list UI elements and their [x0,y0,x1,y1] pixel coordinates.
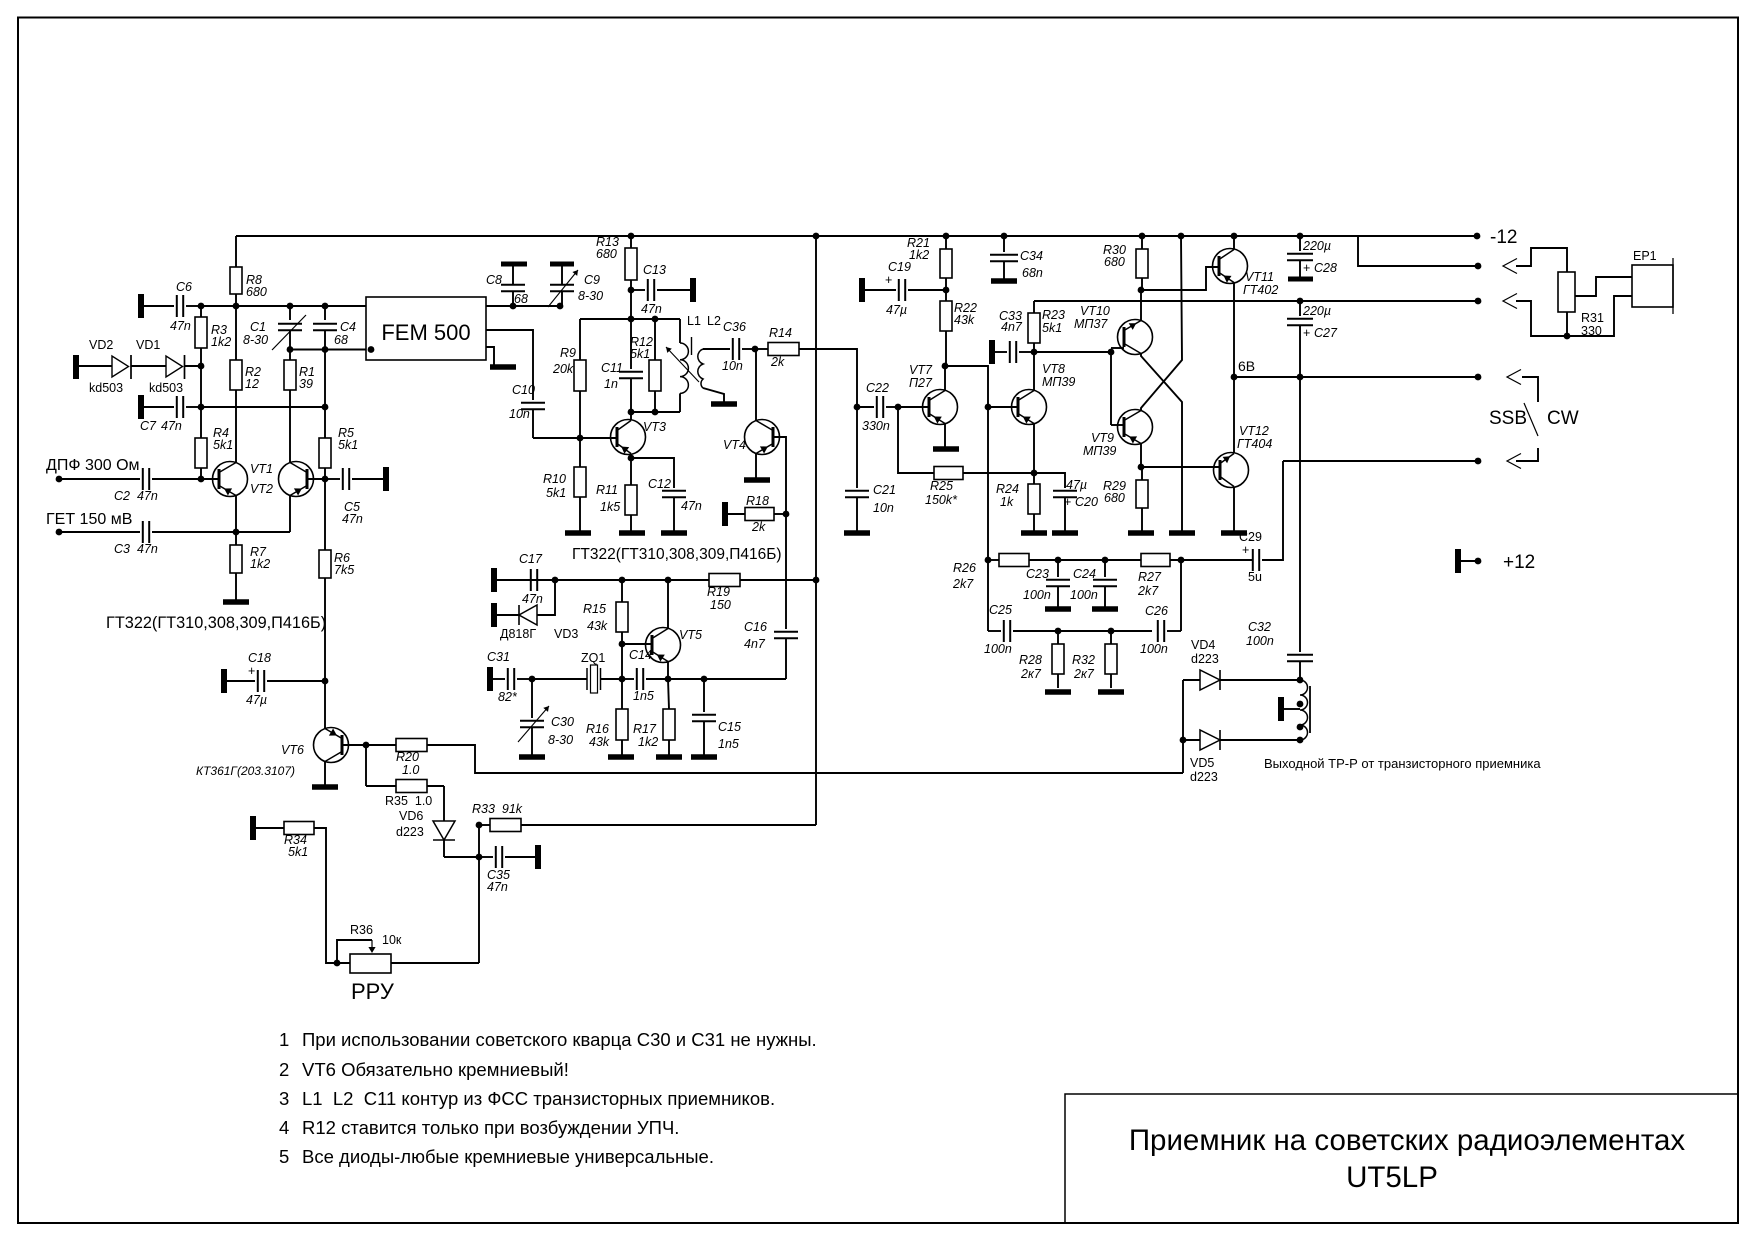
wire R34 to R36 [314,828,350,963]
capacitor C5 47n [325,478,340,480]
capacitor C23 100n [1057,560,1059,577]
arrow contact row4 [1507,370,1521,385]
transistor VT8 MP39 [1012,390,1047,425]
node VT8 collector C33 R23 [1031,349,1038,356]
node R32 top [1108,628,1115,635]
diode VD4 d223 [1183,679,1200,681]
capacitor C17 47n [491,568,497,592]
ground under C24 [1092,606,1118,612]
wire cross VT10 collector [1141,354,1182,532]
diode VD6 d223 [427,785,444,787]
svg-text:C31: C31 [487,650,510,664]
node R26 left [985,557,992,564]
svg-text:R35 1.0: R35 1.0 [385,794,432,808]
node VT3 emitter [628,455,635,462]
wire IF row y580 [494,579,709,581]
resistor R11 1k5 [630,458,632,485]
svg-text:R28: R28 [1019,653,1042,667]
svg-text:C24: C24 [1073,567,1096,581]
capacitor C9 8-30 variable [550,262,574,267]
svg-text:C11: C11 [601,361,623,375]
terminal row2 [1475,263,1482,270]
ground under R17 [656,754,682,760]
terminal +12 [1455,549,1461,573]
node transformer top [1297,677,1304,684]
transistor VT10 MP37 [1111,347,1124,349]
node C17 [552,577,559,584]
svg-text:МП39: МП39 [1042,375,1075,389]
wire VT12 emitter up [1233,377,1235,454]
capacitor C29 5u [1252,549,1254,571]
svg-text:C21: C21 [873,483,896,497]
wire R14 to C21 C22 [799,349,857,407]
svg-text:100n: 100n [1246,634,1274,648]
wire row5 to switch [1516,448,1538,461]
svg-text:C32: C32 [1248,620,1271,634]
transistor VT3 [611,420,646,455]
block FEM 500 [366,297,486,360]
svg-text:Приемник на советских радиоэле: Приемник на советских радиоэлементах [1129,1124,1686,1157]
svg-text:68: 68 [334,333,348,347]
wire VT11 emitter down to 6B [1233,283,1235,378]
capacitor C24 100n [1104,560,1106,577]
svg-text:Все диоды-любые кремниевые уни: Все диоды-любые кремниевые универсальные… [302,1146,714,1167]
ground under cross [1169,530,1195,536]
resistor R18 2k [722,502,728,526]
svg-text:2k: 2k [751,520,766,534]
svg-text:МП39: МП39 [1083,444,1116,458]
svg-text:R17: R17 [633,722,657,736]
capacitor C12 47n [662,490,686,492]
svg-text:VT6: VT6 [281,743,304,757]
svg-text:6В: 6В [1238,358,1255,374]
wire C35 node down to R36 [478,857,480,963]
wire VT11 collector to rail [1233,236,1235,250]
pin dot FEM [368,346,375,353]
svg-text:8-30: 8-30 [243,333,268,347]
resistor R26 2k7 [988,559,999,561]
svg-text:680: 680 [246,285,267,299]
resistor R8 680 [230,267,242,294]
svg-text:1k2: 1k2 [638,735,658,749]
svg-text:d223: d223 [396,825,424,839]
svg-text:150: 150 [710,598,731,612]
svg-text:UT5LP: UT5LP [1346,1161,1438,1194]
resistor R14 2k [755,348,768,350]
ground under R28 [1045,689,1071,695]
wire crystal row right [668,678,786,680]
resistor R24 1k [1033,473,1035,484]
capacitor C34 68n [1003,236,1005,252]
diode VD1 kd503 [131,365,166,367]
svg-text:5k1: 5k1 [338,438,358,452]
resistor R25 150k* [934,467,963,480]
wire tank top row [630,290,632,319]
svg-text:47n: 47n [641,302,662,316]
wire 6B column down to C32 [1299,377,1301,652]
node R27 right [1178,557,1185,564]
wire FEM ground pin [486,347,494,365]
wire cross VT9 collector from rail [1141,236,1182,411]
svg-text:C23: C23 [1026,567,1049,581]
capacitor C15 1n5 [703,679,705,712]
capacitor C35 47n [476,854,483,861]
crystal ZQ1 [532,678,587,680]
wire tank bottom row [631,411,680,413]
svg-text:VD5: VD5 [1190,756,1214,770]
svg-text:2к7: 2к7 [1020,667,1042,681]
potentiometer R36 10k [350,954,391,973]
svg-text:R23: R23 [1042,308,1065,322]
svg-text:680: 680 [596,247,617,261]
resistor R5 5k1 [319,438,331,468]
svg-text:5k1: 5k1 [288,845,308,859]
resistor R2 12 [230,360,242,390]
svg-text:VT8: VT8 [1042,362,1065,376]
wire VT8 base [988,406,1018,408]
svg-text:20k: 20k [552,362,574,376]
node C27 bottom 6B [1297,374,1304,381]
svg-text:10n: 10n [873,501,894,515]
svg-text:1n: 1n [604,377,618,391]
wire R33 to minus rail [521,824,816,826]
svg-text:R16: R16 [586,722,609,736]
capacitor C18 47u [221,669,227,693]
svg-text:1k5: 1k5 [600,500,620,514]
svg-text:VT11: VT11 [1245,270,1274,284]
svg-text:2к7: 2к7 [1073,667,1095,681]
svg-text:47µ: 47µ [246,693,267,707]
capacitor C28 220u [1297,233,1304,240]
diode VD5 d223 [1183,739,1200,741]
svg-text:1.0: 1.0 [402,763,419,777]
terminal row3 [1475,298,1482,305]
node rail R30 [1139,233,1146,240]
wire row3 to R31 bottom and EP1 [1516,296,1632,336]
wire C6 node row [201,305,366,307]
svg-text:R36: R36 [350,923,373,937]
svg-text:R19: R19 [707,585,730,599]
svg-text:+: + [885,273,892,287]
svg-text:68n: 68n [1022,266,1043,280]
svg-text:1k2: 1k2 [909,248,929,262]
ground under R16 [608,754,634,760]
svg-text:2k7: 2k7 [1137,584,1159,598]
svg-text:d223: d223 [1190,770,1218,784]
svg-text:C3: C3 [114,542,130,556]
ground FEM [490,364,516,370]
svg-text:C22: C22 [866,381,889,395]
resistor R13 680 [625,248,637,280]
resistor R28 2k7 [1057,631,1059,644]
svg-text:4: 4 [279,1117,289,1138]
resistor R17 1k2 [668,679,669,709]
resistor R20 1.0 [396,739,427,752]
node VT8 base [985,404,992,411]
svg-text:1k2: 1k2 [250,557,270,571]
svg-text:EP1: EP1 [1633,249,1657,263]
resistor R30 680 [1136,249,1148,278]
node VT7 base [895,404,902,411]
ground under C34 [991,278,1017,284]
svg-text:L1 L2 С11 контур из ФСС тран: L1 L2 С11 контур из ФСС транзисторных пр… [302,1088,775,1109]
terminal GET input [56,529,63,536]
wire C25 row [988,630,1001,632]
svg-text:R20: R20 [396,750,419,764]
arrow contact row2 [1503,259,1517,274]
ground under C15 [691,754,717,760]
svg-text:C2: C2 [114,489,130,503]
svg-text:C1: C1 [250,320,266,334]
capacitor C2 47n [59,478,140,480]
wire R27 node down to C26 row [1180,560,1182,631]
resistor R23 5k1 [1028,313,1040,343]
capacitor C13 47n [628,287,635,294]
resistor R15 43k [619,577,626,584]
transformer center tap terminal [1278,697,1284,721]
arrow contact row5 [1507,454,1521,469]
svg-text:C30: C30 [551,715,574,729]
diode VD3 D818G [491,603,497,627]
svg-text:kd503: kd503 [149,381,183,395]
transistor VT2 [279,462,314,497]
resistor R7 1k2 [230,545,242,573]
node rail R13 [628,233,635,240]
wire FEM right top pin [486,305,560,307]
svg-text:C8: C8 [486,273,502,287]
resistor R27 2k7 [1141,554,1170,567]
diode VD2 kd503 [73,355,79,379]
wire VT9 emitter [1140,444,1142,468]
svg-text:47n: 47n [487,880,508,894]
svg-text:43k: 43k [589,735,610,749]
ground under C23 [1045,606,1071,612]
svg-text:-12: -12 [1490,227,1517,248]
capacitor C10 10n [521,402,545,404]
ground under C30 [519,754,545,760]
resistor R21 1k2 [940,249,952,278]
svg-text:47n: 47n [342,512,363,526]
terminal row4 [1475,374,1482,381]
svg-text:5: 5 [279,1146,289,1167]
switch blade SSB CW [1524,403,1538,436]
transistor VT12 GT404 [1214,453,1249,488]
svg-text:220µ: 220µ [1302,304,1331,318]
svg-text:43k: 43k [587,619,608,633]
wire 6B row [1234,376,1478,378]
svg-text:C4: C4 [340,320,356,334]
transistor VT4 [745,420,780,455]
resistor R1 39 [284,360,296,390]
ground under R7 [223,599,249,605]
inductor L1 [679,319,681,343]
resistor R16 43k [621,679,623,709]
node rail C34 [1001,233,1008,240]
wire R26 row [1058,559,1141,561]
svg-text:VT2: VT2 [250,482,273,496]
svg-text:VT7: VT7 [909,363,933,377]
svg-text:1n5: 1n5 [718,737,739,751]
wire row4 to switch [1522,377,1538,402]
svg-text:C19: C19 [888,260,911,274]
wire VT10 emitter to rail node [1140,290,1142,321]
capacitor C3 47n [59,531,140,533]
svg-text:1n5: 1n5 [633,689,654,703]
svg-text:ГТ402: ГТ402 [1243,283,1278,297]
node R33 left [476,822,483,829]
node R30 bottom [1138,287,1145,294]
node VT8 emitter [1031,470,1038,477]
wire VT7 base [898,406,929,408]
svg-text:SSB: SSB [1489,408,1527,429]
wire C29 output row [1283,460,1478,462]
ground under VT4 [744,477,770,483]
svg-text:C20: C20 [1075,495,1098,509]
svg-text:C27: C27 [1314,326,1338,340]
svg-text:C26: C26 [1145,604,1168,618]
svg-text:Выходной ТР-Р от транзисторног: Выходной ТР-Р от транзисторного приемник… [1264,756,1541,771]
svg-text:VT5: VT5 [679,628,702,642]
svg-text:VT1: VT1 [250,462,273,476]
svg-text:L1: L1 [687,314,701,328]
transformer winding [1300,680,1308,740]
svg-text:10n: 10n [722,359,743,373]
ground under VT7 [933,446,959,452]
node R21 R22 [943,287,950,294]
svg-text:C28: C28 [1314,261,1337,275]
node VT7 collector [942,363,949,370]
svg-text:R26: R26 [953,561,976,575]
resistor R4 5k1 [195,438,207,468]
resistor R3 1k2 [195,317,207,348]
node VD5 anode [1180,737,1187,744]
svg-text:VT6 Обязательно кремниевый!: VT6 Обязательно кремниевый! [302,1059,569,1080]
svg-text:100n: 100n [984,642,1012,656]
node C30 top [529,676,536,683]
wire R25 row [898,407,934,473]
svg-text:КТ361Г(203.3107): КТ361Г(203.3107) [196,764,295,778]
core L1 L2 [691,337,693,355]
wire L2 to C36 [703,348,730,350]
svg-text:5k1: 5k1 [630,347,650,361]
svg-text:2: 2 [279,1059,289,1080]
svg-text:330n: 330n [862,419,890,433]
svg-text:C18: C18 [248,651,271,665]
svg-text:220µ: 220µ [1302,239,1331,253]
svg-text:VD2: VD2 [89,338,113,352]
svg-text:C16: C16 [744,620,767,634]
svg-text:R24: R24 [996,482,1019,496]
svg-text:47n: 47n [170,319,191,333]
wire R8 to rail [235,236,237,267]
wire R36 to C35 column [391,962,479,964]
svg-text:47µ: 47µ [1066,478,1087,492]
capacitor C27 220u [1297,298,1304,305]
svg-text:100n: 100n [1023,588,1051,602]
svg-text:ГТ322(ГТ310,308,309,П416Б): ГТ322(ГТ310,308,309,П416Б) [106,614,326,632]
svg-text:VT3: VT3 [643,420,666,434]
capacitor C4 68 [324,306,326,320]
svg-text:ГТ404: ГТ404 [1237,437,1272,451]
svg-text:VD6: VD6 [399,809,423,823]
svg-text:C10: C10 [512,383,535,397]
title block frame [1065,1094,1738,1223]
wire VT12 base row [1141,466,1219,468]
svg-text:10n: 10n [509,407,530,421]
svg-text:C6: C6 [176,280,192,294]
svg-text:R18: R18 [746,494,769,508]
node VT5 collector [665,577,672,584]
resistor R32 2k7 [1110,631,1112,644]
capacitor C11 1n [630,319,632,369]
capacitor C36 10n [732,338,734,360]
svg-text:+: + [1303,261,1310,275]
svg-text:R9: R9 [560,346,576,360]
svg-text:+: + [1242,543,1249,557]
svg-text:5u: 5u [1248,570,1262,584]
svg-text:МП37: МП37 [1074,317,1108,331]
svg-text:5k1: 5k1 [213,438,233,452]
capacitor C1 8-30 variable [289,306,291,320]
svg-text:39: 39 [299,377,313,391]
svg-text:VT10: VT10 [1080,304,1110,318]
capacitor C21 10n [856,407,858,488]
svg-text:C12: C12 [648,477,671,491]
svg-text:82*: 82* [498,690,518,704]
svg-text:47n: 47n [522,592,543,606]
svg-text:VD1: VD1 [136,338,160,352]
node C24 top [1102,557,1109,564]
wire row2 to R31 top [1516,248,1567,272]
transistor VT11 GT402 [1213,249,1248,284]
resistor R9 20k [579,319,581,360]
svg-text:ГЕТ 150 мВ: ГЕТ 150 мВ [46,511,132,528]
inductor L2 [698,349,703,388]
svg-text:680: 680 [1104,255,1125,269]
wire rail from top to R19 row [815,236,817,580]
ground under R11 [619,530,645,536]
svg-text:R14: R14 [769,326,792,340]
svg-text:R33 91k: R33 91k [472,802,523,816]
svg-text:2k: 2k [770,355,785,369]
svg-text:C29: C29 [1239,530,1262,544]
svg-text:kd503: kd503 [89,381,123,395]
wire base to VT5 [622,643,652,645]
wire R31 to EP1 pin1 [1575,277,1632,296]
transistor VT9 MP39 [1111,424,1124,426]
ground under VT6 [312,784,338,790]
svg-text:680: 680 [1104,491,1125,505]
capacitor C20 47u [1034,473,1065,488]
ground under C21 [844,530,870,536]
svg-text:R31: R31 [1581,311,1604,325]
svg-text:VD4: VD4 [1191,638,1215,652]
resistor R6 7k5 [319,550,331,578]
svg-text:47n: 47n [681,499,702,513]
arrow contact row3 [1503,294,1517,309]
terminal row5 [1475,458,1482,465]
capacitor C19 47u [859,278,865,302]
transistor VT6 KT361 [314,728,349,763]
ground under C20 [1052,530,1078,536]
node 6B [1231,374,1238,381]
node VT9 emitter [1138,464,1145,471]
wire -12 top rail [236,235,1477,237]
ground under L2 [711,401,737,407]
node VD1 cathode [198,363,205,370]
inductor arrow [666,347,699,382]
svg-text:П27: П27 [909,376,933,390]
